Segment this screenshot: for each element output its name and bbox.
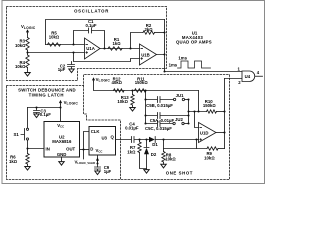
svg-text:0.1µF: 0.1µF [85,23,96,28]
svg-text:JU2: JU2 [175,117,183,122]
svg-text:C5C, 0.015µF: C5C, 0.015µF [145,126,172,131]
svg-text:10kΩ: 10kΩ [117,99,128,104]
svg-text:1: 1 [238,66,241,71]
svg-text:150kΩ: 150kΩ [135,80,149,85]
svg-text:2: 2 [238,80,241,85]
svg-text:VLOGIC: VLOGIC [96,77,111,83]
svg-text:U3: U3 [101,136,107,141]
svg-text:QUAD OP AMPS: QUAD OP AMPS [176,39,212,44]
svg-text:D1: D1 [152,142,158,147]
svg-text:VLOGIC: VLOGIC [64,100,79,106]
svg-text:MAX6816: MAX6816 [52,139,72,144]
svg-text:1ms: 1ms [178,56,187,61]
svg-text:VLOGIC: VLOGIC [21,24,36,30]
svg-text:GND: GND [57,152,67,157]
svg-text:OSCILLATOR: OSCILLATOR [74,9,109,14]
svg-text:1kΩ: 1kΩ [127,149,136,154]
svg-text:10kΩ: 10kΩ [204,155,215,160]
svg-text:1µF: 1µF [58,67,66,72]
svg-text:S1: S1 [14,132,20,137]
svg-text:10kΩ: 10kΩ [49,34,60,39]
svg-text:10kΩ: 10kΩ [165,157,176,162]
svg-text:4: 4 [257,70,260,75]
svg-text:D: D [90,147,93,152]
svg-text:10kΩ: 10kΩ [15,43,26,48]
svg-text:0.1µF: 0.1µF [40,112,51,117]
svg-text:C5B, 0.015µF: C5B, 0.015µF [146,103,173,108]
svg-text:VLOGIC_VALID: VLOGIC_VALID [75,159,96,165]
svg-text:CLK: CLK [91,129,101,134]
svg-text:OUT: OUT [66,146,75,151]
svg-text:VCC: VCC [57,123,64,129]
svg-text:U1B: U1B [141,53,150,58]
svg-text:10kΩ: 10kΩ [15,64,26,69]
svg-text:40kΩ: 40kΩ [111,80,122,85]
svg-text:1kΩ: 1kΩ [9,159,18,164]
svg-text:1µF: 1µF [104,169,112,174]
svg-text:U4: U4 [245,74,251,79]
svg-text:1kΩ: 1kΩ [112,41,121,46]
svg-text:D2: D2 [151,152,157,157]
svg-text:150kΩ: 150kΩ [203,103,217,108]
svg-text:ONE SHOT: ONE SHOT [166,171,193,176]
svg-text:VCC: VCC [96,148,103,154]
svg-text:2kΩ: 2kΩ [144,27,153,32]
svg-text:JU1: JU1 [176,93,184,98]
svg-text:U1A: U1A [86,46,95,51]
svg-text:U1D: U1D [200,130,209,135]
svg-text:TIMING LATCH: TIMING LATCH [29,92,64,97]
svg-text:0.01µF: 0.01µF [125,126,139,131]
svg-text:1ms: 1ms [169,63,178,68]
svg-text:IN: IN [46,146,50,151]
svg-text:C5A, 0.01µF: C5A, 0.01µF [150,118,175,123]
